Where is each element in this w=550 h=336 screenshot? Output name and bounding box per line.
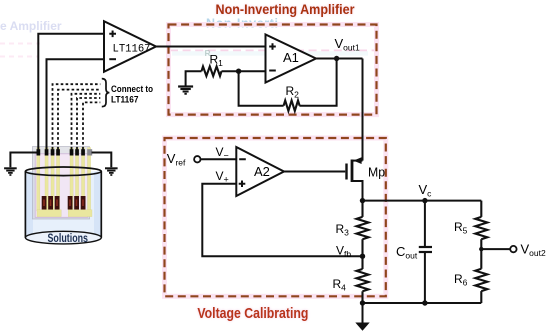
- svg-text:LT1167: LT1167: [111, 95, 139, 106]
- svg-text:Non-Inverting Amplifier: Non-Inverting Amplifier: [216, 1, 355, 17]
- sensor chip (lavender): [35, 154, 88, 218]
- wire A1 output: [316, 58, 363, 60]
- op-amp A2: [236, 147, 284, 196]
- svg-text:Solutions: Solutions: [48, 231, 89, 245]
- resistor R4: [357, 256, 369, 303]
- wire A2 output to Mp gate: [284, 171, 345, 173]
- svg-text:Mp: Mp: [368, 165, 385, 180]
- label LT1167 (connect note): [111, 95, 139, 106]
- label V+: [216, 169, 229, 185]
- beaker outline: [25, 167, 101, 244]
- capacitor Cout: [419, 201, 432, 303]
- dashed box glow (voltage calibrating): [165, 138, 386, 296]
- wire R2 to output node: [299, 59, 336, 106]
- op-amp LT1167: [104, 21, 156, 72]
- label R2: [286, 84, 300, 100]
- wire pin1 to LT1167 + input: [38, 34, 104, 150]
- Solutions label: [48, 231, 89, 245]
- label Vout2: [521, 242, 546, 259]
- wire to ground: [362, 303, 364, 323]
- resistor R1: [202, 66, 222, 76]
- ground (signal, filled triangle): [355, 323, 369, 331]
- ghost artifact text top-left: [0, 19, 62, 33]
- node Cout top: [422, 198, 427, 203]
- label R3: [336, 222, 350, 238]
- title Voltage Calibrating: [197, 306, 308, 322]
- wire bottom rail: [363, 302, 482, 304]
- op-amp A1: [266, 35, 317, 83]
- dashed box glow (non-inverting amplifier): [169, 25, 377, 115]
- node Cout bottom: [422, 300, 427, 305]
- label Connect to: [111, 84, 153, 95]
- dashed box Non-Inverting Amplifier: [169, 25, 377, 115]
- wire ground to R1: [186, 71, 202, 85]
- resistor R3: [357, 201, 369, 257]
- title Non-Inverting Amplifier: [216, 1, 355, 17]
- label R6: [454, 272, 468, 288]
- svg-text:LT1167: LT1167: [113, 44, 151, 56]
- node Vfb: [360, 254, 365, 259]
- label R1: [210, 53, 224, 69]
- ghost artifact dashes left: [0, 44, 40, 57]
- label Vfb: [336, 244, 351, 260]
- ground (R1): [178, 87, 193, 94]
- label Vref: [167, 151, 186, 168]
- electrode contact bars: [42, 196, 86, 210]
- ground (beaker right): [105, 168, 118, 175]
- label Mp: [368, 165, 385, 180]
- node Vout1: [334, 56, 339, 61]
- wire Vout1 down to Mp source: [362, 59, 364, 161]
- wire Vref to A2 - input: [201, 158, 237, 160]
- resistor R5: [475, 201, 487, 250]
- resistor R6: [475, 249, 487, 303]
- wire beaker-right to ground: [92, 153, 112, 168]
- transistor Mp (PMOS): [347, 157, 363, 200]
- chip pins: [37, 149, 85, 155]
- gray pin: [87, 149, 92, 155]
- node drain/Vc: [360, 198, 365, 203]
- wire feedback down and right: [239, 71, 284, 106]
- dashed box Voltage Calibrating: [165, 138, 386, 296]
- node Vout2 tee: [479, 247, 483, 251]
- svg-text:A1: A1: [283, 50, 299, 65]
- ground (beaker left): [4, 168, 17, 175]
- label R4: [333, 277, 347, 293]
- brace: [102, 79, 110, 107]
- svg-text:A2: A2: [254, 164, 270, 179]
- sensor card (gray carrier): [33, 147, 90, 220]
- wire to Vout2: [481, 248, 510, 250]
- terminal Vout2: [510, 246, 516, 252]
- label Vout1: [335, 36, 360, 53]
- resistor R2: [284, 101, 300, 111]
- wire A2 + input from below: [202, 184, 362, 256]
- wire Vc line: [363, 200, 482, 202]
- node bottom: [360, 300, 365, 305]
- terminal Vref: [194, 156, 200, 162]
- wire LT1167 output to A1 +: [156, 46, 266, 48]
- label Cout: [396, 244, 418, 261]
- beaker body: [25, 172, 101, 245]
- electrode yellow strips: [37, 148, 92, 217]
- label R5: [454, 220, 468, 236]
- svg-text:Voltage Calibrating: Voltage Calibrating: [197, 306, 308, 322]
- label Vc: [419, 182, 433, 199]
- wire beaker-left to ground: [10, 153, 36, 168]
- ghost artifact line in box1: [170, 48, 374, 58]
- label V-: [216, 145, 229, 161]
- wire R1 to A1 - input: [222, 70, 266, 72]
- wire pin2 to LT1167 - input: [47, 59, 105, 150]
- node junction (A1 minus): [236, 69, 241, 74]
- svg-text:Connect to: Connect to: [111, 84, 153, 95]
- svg-text:e Amplifier: e Amplifier: [0, 19, 62, 33]
- dashed connection wires to LT1167: [53, 84, 101, 149]
- ghost artifact text under title: [206, 17, 278, 31]
